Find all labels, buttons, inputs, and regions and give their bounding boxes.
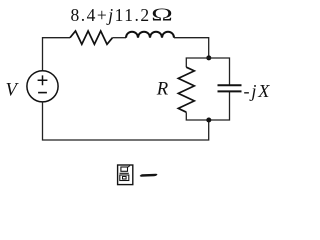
inductor (series, part of 8.4+j11.2 ohm) (126, 32, 174, 38)
voltage source minus sign (38, 92, 47, 94)
caption glyph tu (figure) (118, 165, 133, 185)
resistor R (vertical) (178, 67, 194, 112)
resistor (series, part of 8.4+j11.2 ohm) (70, 31, 113, 44)
node bottom (junction dot) (206, 118, 211, 123)
wire top-left segment (43, 38, 71, 71)
capacitor -jX top plate (218, 84, 242, 86)
svg-text:8.4+j11.2: 8.4+j11.2 (71, 5, 151, 25)
wire left-bottom segment (43, 102, 209, 140)
wire parallel bottom bar (186, 91, 229, 120)
node top (junction dot) (206, 55, 211, 60)
wire between resistor and inductor (113, 37, 127, 39)
wire parallel top bar (186, 58, 229, 85)
svg-text:Ω: Ω (151, 5, 173, 25)
voltage source V (circle) (27, 71, 58, 102)
voltage source plus sign (38, 75, 48, 85)
wire top-right segment (174, 38, 209, 58)
svg-text:V: V (6, 79, 20, 100)
svg-text:-jX: -jX (244, 81, 272, 101)
caption glyph yi (one) (140, 174, 158, 177)
svg-text:R: R (156, 79, 169, 100)
capacitor -jX bottom plate (218, 90, 242, 92)
